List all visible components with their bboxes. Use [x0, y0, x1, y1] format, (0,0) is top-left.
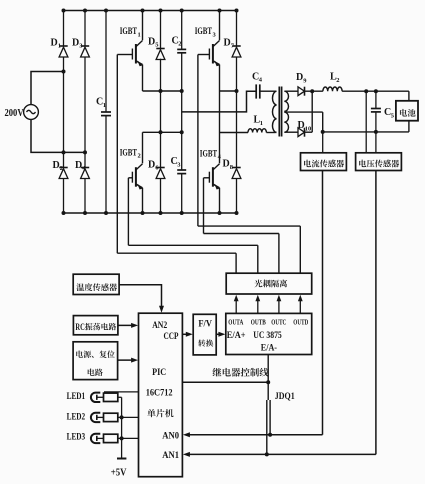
svg-text:2: 2: [178, 41, 181, 48]
svg-text:1: 1: [138, 31, 141, 38]
svg-text:F/V: F/V: [198, 320, 212, 330]
svg-text:OUTA: OUTA: [228, 319, 244, 327]
svg-text:D: D: [223, 159, 230, 170]
svg-text:D: D: [53, 160, 60, 171]
svg-text:D: D: [148, 36, 155, 47]
svg-text:OUTD: OUTD: [293, 319, 308, 327]
svg-text:D: D: [75, 160, 82, 171]
svg-text:AN0: AN0: [162, 432, 179, 442]
svg-text:D: D: [298, 120, 305, 131]
svg-text:RC: RC: [75, 322, 84, 332]
svg-text:1: 1: [260, 120, 263, 127]
svg-text:LED3: LED3: [67, 432, 86, 442]
svg-text:AN1: AN1: [162, 451, 179, 461]
svg-text:1: 1: [103, 102, 106, 109]
svg-text:JDQ1: JDQ1: [275, 392, 295, 402]
svg-text:2: 2: [336, 77, 339, 84]
svg-text:IGBT: IGBT: [120, 147, 137, 157]
svg-text:D: D: [51, 37, 58, 48]
svg-text:2: 2: [60, 165, 63, 172]
svg-text:E/A-: E/A-: [261, 344, 277, 354]
svg-text:IGBT: IGBT: [195, 26, 212, 36]
svg-text:OUTC: OUTC: [271, 319, 286, 327]
svg-text:E/A+: E/A+: [227, 331, 246, 341]
svg-text:D: D: [148, 159, 155, 170]
svg-text:CCP: CCP: [164, 332, 179, 342]
svg-text:PIC: PIC: [152, 368, 166, 378]
svg-text:LED1: LED1: [67, 391, 86, 401]
svg-text:1: 1: [58, 43, 61, 50]
svg-text:16C712: 16C712: [146, 387, 173, 397]
svg-text:200V: 200V: [5, 108, 24, 119]
svg-text:UC 3875: UC 3875: [253, 331, 282, 341]
svg-text:+5V: +5V: [111, 468, 127, 479]
svg-text:IGBT: IGBT: [200, 148, 217, 158]
svg-text:IGBT: IGBT: [120, 26, 137, 36]
svg-text:LED2: LED2: [67, 412, 86, 422]
svg-text:2: 2: [138, 153, 141, 160]
svg-text:AN2: AN2: [152, 321, 167, 331]
svg-text:D: D: [296, 72, 303, 83]
svg-text:D: D: [224, 37, 231, 48]
svg-text:OUTB: OUTB: [251, 319, 266, 327]
svg-text:D: D: [72, 37, 79, 48]
